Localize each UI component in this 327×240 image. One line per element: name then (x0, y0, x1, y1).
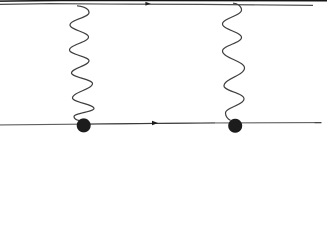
top border line (0, 0, 327, 2)
vertex dot 1 (left) (77, 118, 91, 132)
photon wavy line 2 (right) (223, 3, 245, 120)
arrow on bottom fermion line (152, 121, 158, 125)
bottom fermion line (0, 123, 322, 125)
dark end cap of bottom fermion line (315, 122, 322, 124)
photon wavy line 1 (left) (70, 6, 95, 121)
vertex dot 2 (right) (228, 119, 242, 133)
arrow on top fermion line (145, 2, 151, 6)
top fermion line (0, 4, 313, 6)
darker segment of bottom fermion line (84, 123, 215, 124)
